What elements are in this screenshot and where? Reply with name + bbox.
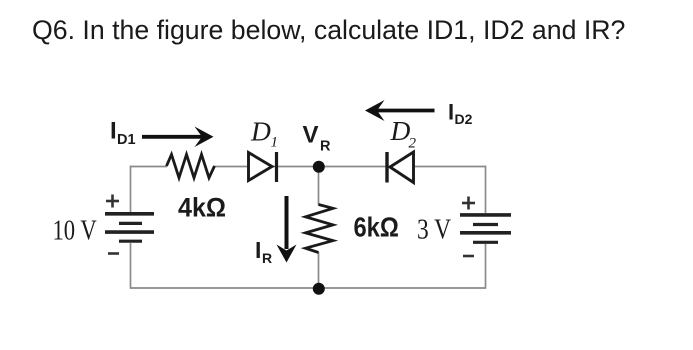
svg-text:I: I [255,237,261,263]
svg-text:V: V [303,122,319,149]
svg-text:D1: D1 [117,132,136,148]
svg-text:3 V: 3 V [417,212,451,245]
svg-text:2: 2 [409,136,417,152]
svg-text:D2: D2 [455,111,473,127]
svg-text:10 V: 10 V [53,214,97,246]
svg-text:D: D [390,115,411,146]
svg-text:6kΩ: 6kΩ [354,213,399,243]
svg-text:I: I [448,100,454,125]
svg-text:R: R [262,250,272,266]
svg-text:4kΩ: 4kΩ [178,192,226,223]
svg-text:R: R [320,139,331,155]
svg-text:I: I [110,118,117,145]
svg-text:D: D [250,116,271,147]
svg-text:1: 1 [271,135,279,151]
